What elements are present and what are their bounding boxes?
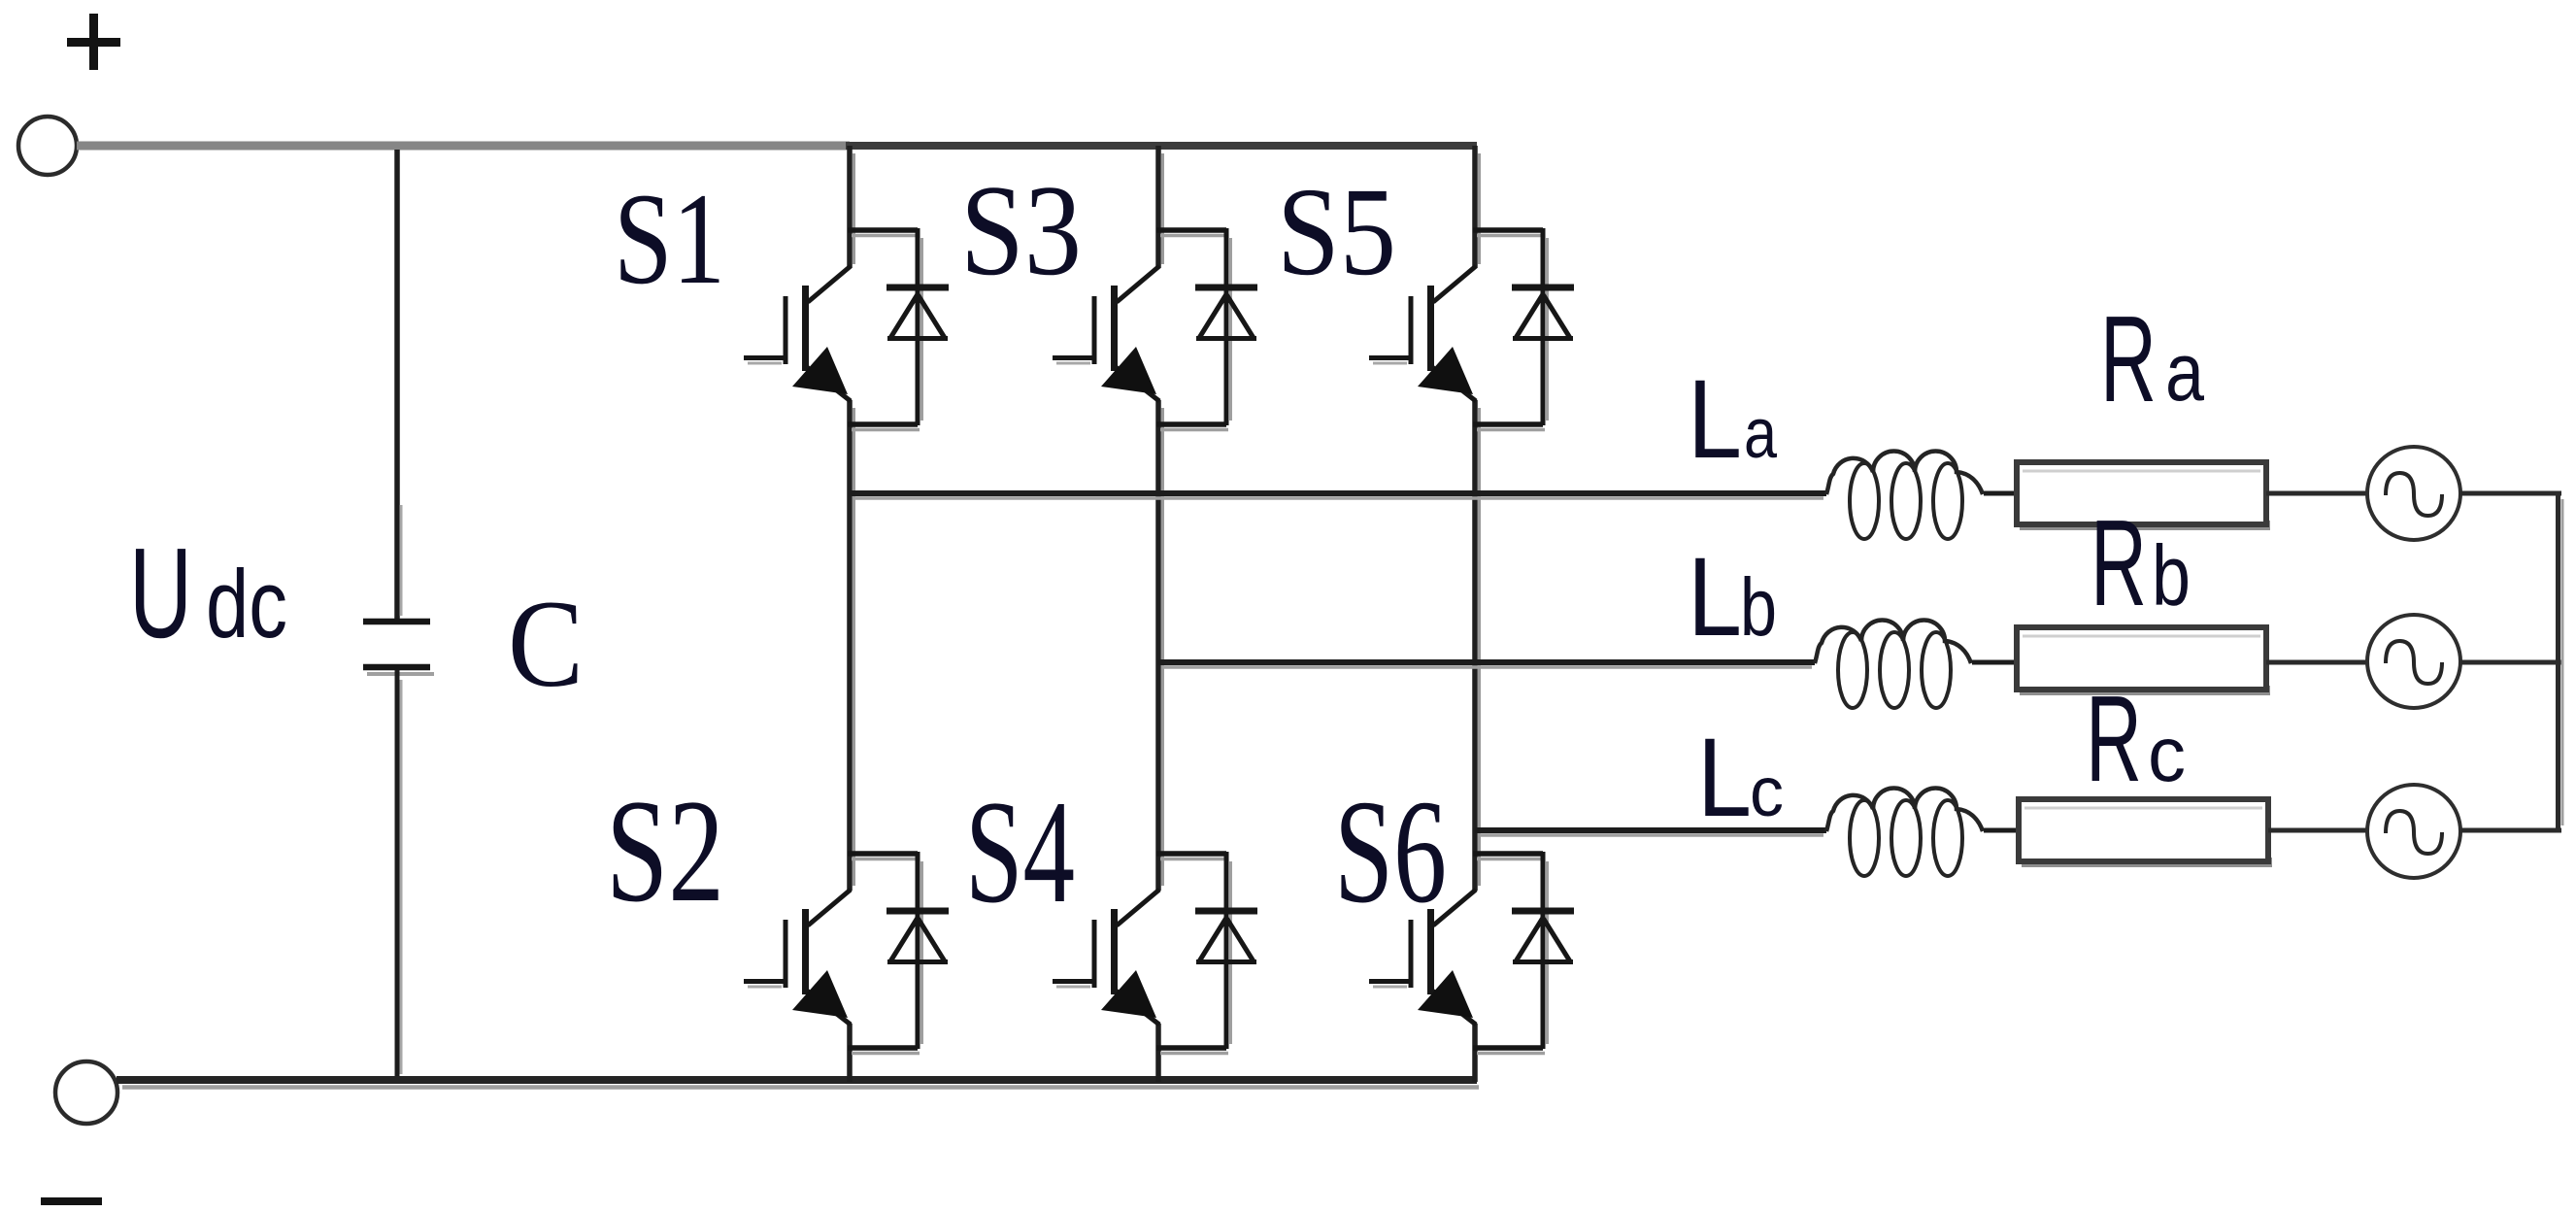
transistor S4 (IGBT): [1053, 890, 1159, 1025]
label Lc: [1697, 716, 1784, 840]
resistor Rb: [2017, 627, 2270, 695]
wire: phase A leg, upper emitter to lower collector: [850, 400, 854, 891]
diode (antiparallel of S6): [1473, 852, 1574, 1054]
inductor La: [1826, 452, 1983, 540]
resistor Ra: [2017, 462, 2270, 530]
label Rb: [2091, 494, 2191, 631]
svg-text:R: R: [2091, 494, 2147, 631]
svg-text:S2: S2: [606, 769, 724, 932]
svg-text:R: R: [2100, 290, 2157, 427]
svg-text:S4: S4: [965, 770, 1075, 933]
wire: Ra to phase a source: [2266, 491, 2367, 496]
wire: neutral bus (right vertical): [2559, 491, 2563, 833]
wire: bridge bottom rail: [117, 1080, 1479, 1088]
AC source phase b: [2367, 615, 2460, 708]
wire: phase c source to neutral bus: [2460, 828, 2561, 833]
label La: [1688, 357, 1778, 482]
wire: Rc to phase c source: [2268, 828, 2367, 833]
diode (antiparallel of S2): [848, 852, 949, 1054]
wire: phase B output: [1158, 662, 1815, 667]
negative DC terminal: [55, 1061, 117, 1124]
inductor Lb: [1815, 621, 1971, 709]
transistor S1 (IGBT): [744, 266, 851, 401]
wire: phase C leg, upper emitter to lower collector: [1475, 400, 1480, 891]
wire: capacitor bottom branch: [397, 670, 401, 1080]
svg-text:c: c: [2148, 711, 2186, 797]
wire: phase b source to neutral bus: [2460, 660, 2561, 665]
svg-text:dc: dc: [206, 550, 287, 657]
svg-text:a: a: [2165, 326, 2204, 418]
svg-text:S1: S1: [614, 167, 725, 312]
wire: top DC bus from + terminal: [77, 142, 850, 151]
wire: Lc to Rc: [1984, 828, 2019, 833]
diode (antiparallel of S4): [1156, 852, 1257, 1054]
inductor Lc: [1826, 789, 1983, 877]
label Lb: [1688, 535, 1777, 659]
svg-text:L: L: [1688, 535, 1742, 659]
svg-text:C: C: [508, 575, 584, 713]
svg-text:a: a: [1744, 395, 1778, 473]
label Ra: [2100, 290, 2204, 427]
positive DC terminal: [18, 117, 77, 175]
transistor S5 (IGBT): [1369, 266, 1476, 401]
wire: Rb to phase b source: [2266, 660, 2367, 665]
wire: phase a source to neutral bus: [2460, 491, 2561, 496]
AC source phase a: [2367, 447, 2460, 540]
wire: phase C leg, lower emitter to bottom rail: [1472, 1024, 1478, 1082]
wire: phase C leg, top rail to upper IGBT: [1475, 146, 1480, 268]
wire: phase A leg, lower emitter to bottom rail: [847, 1024, 853, 1082]
svg-text:L: L: [1688, 357, 1742, 482]
svg-text:S5: S5: [1277, 162, 1396, 302]
resistor Rc: [2019, 799, 2272, 867]
diode (antiparallel of S1): [848, 228, 949, 430]
wire: phase A output: [850, 493, 1826, 498]
wire: phase B leg, top rail to upper IGBT: [1158, 146, 1163, 268]
svg-text:R: R: [2086, 670, 2142, 807]
wire: phase A leg, top rail to upper IGBT: [850, 146, 854, 268]
label Rc: [2086, 670, 2186, 807]
transistor S2 (IGBT): [744, 890, 851, 1025]
svg-text:b: b: [2152, 527, 2191, 623]
label + (positive terminal): [67, 14, 120, 70]
wire: capacitor top branch: [397, 150, 401, 622]
wire: Lb to Rb: [1972, 660, 2017, 665]
wire: phase B leg, lower emitter to bottom rail: [1155, 1024, 1161, 1082]
capacitor C: [363, 622, 434, 674]
transistor S6 (IGBT): [1369, 890, 1476, 1025]
svg-text:S6: S6: [1334, 770, 1447, 934]
svg-text:c: c: [1750, 754, 1784, 831]
diode (antiparallel of S5): [1473, 228, 1574, 430]
AC source phase c: [2367, 785, 2460, 878]
wire: bridge top rail: [846, 142, 1477, 150]
svg-text:b: b: [1740, 561, 1777, 653]
label Udc: [129, 522, 287, 664]
diode (antiparallel of S3): [1156, 228, 1257, 430]
wire: phase B leg, upper emitter to lower collector: [1158, 400, 1163, 891]
label - (negative terminal): [41, 1197, 102, 1205]
wire: phase C output: [1475, 830, 1826, 835]
svg-text:S3: S3: [960, 158, 1082, 302]
svg-text:U: U: [129, 522, 192, 664]
svg-text:L: L: [1697, 716, 1752, 840]
wire: La to Ra: [1984, 491, 2017, 496]
transistor S3 (IGBT): [1053, 266, 1159, 401]
